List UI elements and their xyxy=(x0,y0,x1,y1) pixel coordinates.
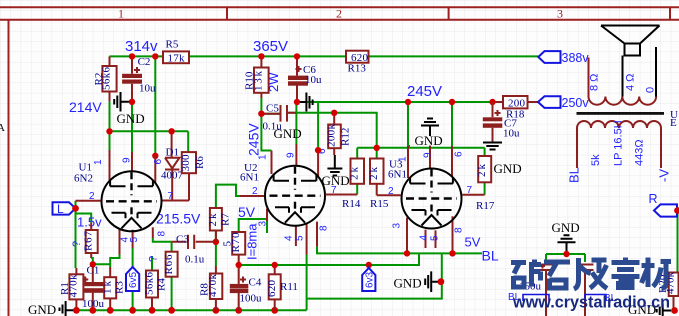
svg-text:6: 6 xyxy=(454,151,465,157)
wire pin8 U1 to C3 node xyxy=(153,238,172,242)
diode D1 4007 xyxy=(161,134,184,201)
svg-text:1: 1 xyxy=(258,154,269,160)
node dot plate U1 xyxy=(106,128,112,134)
resistor R5 17k xyxy=(163,39,189,65)
border row letter A xyxy=(0,122,5,134)
svg-text:8: 8 xyxy=(319,225,330,231)
svg-text:365V: 365V xyxy=(253,38,288,55)
svg-text:0: 0 xyxy=(645,87,657,93)
wire U3 pin6 drop xyxy=(451,102,453,146)
resistor R13 620 xyxy=(346,51,369,75)
svg-text:1: 1 xyxy=(118,7,124,21)
resistor R67 (grid) xyxy=(71,223,98,258)
svg-text:R3: R3 xyxy=(114,281,126,294)
svg-text:www.crystalradio.cn: www.crystalradio.cn xyxy=(512,293,670,312)
pin label 9 U2 xyxy=(286,152,297,158)
svg-text:1.5v: 1.5v xyxy=(77,215,102,230)
node dot D1 top xyxy=(168,128,174,134)
pin3 stub U2 xyxy=(266,209,268,222)
svg-text:R10: R10 xyxy=(244,71,256,90)
pin label 5 U3 xyxy=(430,235,441,241)
resistor R8 470k xyxy=(199,266,223,310)
svg-text:2k: 2k xyxy=(476,164,488,178)
pin label 3 U3 xyxy=(392,223,403,229)
svg-text:8: 8 xyxy=(157,231,168,237)
junction dots 245V line xyxy=(405,99,496,105)
svg-text:L: L xyxy=(57,202,64,216)
wire output port R vertical xyxy=(677,211,679,273)
capacitor C6 10u xyxy=(288,56,322,99)
svg-text:GND: GND xyxy=(415,133,443,148)
svg-text:GND: GND xyxy=(394,276,422,291)
svg-text:245V: 245V xyxy=(407,83,442,100)
net label 5V at BL xyxy=(465,235,481,250)
wire U2 pin6 up to 245V line xyxy=(317,102,319,150)
wire C5 line y=113 xyxy=(261,113,376,148)
pin label 6 U2 xyxy=(317,148,328,154)
winding label -V xyxy=(657,169,672,182)
svg-text:2k: 2k xyxy=(349,167,361,181)
ground at right of U3 (gnd drop) xyxy=(552,220,580,254)
svg-text:R: R xyxy=(649,192,658,206)
pin label 7 U3 xyxy=(467,185,473,196)
pin label 8 U1 xyxy=(157,231,168,237)
svg-text:R13: R13 xyxy=(348,63,367,75)
wire R7 top to U2 grid xyxy=(216,185,240,208)
designator U3 xyxy=(389,159,403,171)
wire pin4 U1 jog to R3/C1 node xyxy=(110,255,119,268)
svg-text:R11: R11 xyxy=(280,281,298,293)
svg-text:2k: 2k xyxy=(207,213,219,227)
svg-text:6v5: 6v5 xyxy=(128,271,139,288)
sheet border second line xyxy=(0,19,679,21)
svg-text:R7: R7 xyxy=(220,213,232,226)
speaker xyxy=(601,26,660,97)
winding label LP 16.5H xyxy=(613,120,625,166)
svg-text:314v: 314v xyxy=(125,38,158,55)
svg-text:1: 1 xyxy=(93,159,104,165)
svg-text:C4: C4 xyxy=(249,277,262,289)
wire C6/GND line 245V y=102 xyxy=(297,101,496,103)
wire C3 right to R7/R8 node xyxy=(215,208,217,267)
pin label 2 U3 xyxy=(388,186,394,197)
wire R10 bottom to U2 pin1 xyxy=(261,98,271,151)
svg-text:5V: 5V xyxy=(465,235,481,250)
svg-text:9: 9 xyxy=(122,157,133,163)
wire R17 riser xyxy=(484,148,486,195)
svg-text:0.1u: 0.1u xyxy=(185,254,205,266)
winding label 443 ohm xyxy=(634,139,646,166)
junction dots 365V line xyxy=(258,53,300,59)
svg-text:R17: R17 xyxy=(476,200,495,212)
output transformer primary 5k xyxy=(577,121,661,168)
port R xyxy=(654,204,677,216)
node dot gnd U3 bottom xyxy=(438,278,445,285)
node dot gnd drop xyxy=(563,251,569,257)
winding label 5k xyxy=(590,154,602,166)
svg-text:4 Ω: 4 Ω xyxy=(625,74,637,91)
svg-text:10u: 10u xyxy=(503,128,520,140)
port 6v5 heater xyxy=(126,267,139,291)
pin label 7 U1 xyxy=(168,191,174,202)
tap label 8 ohm xyxy=(589,74,601,91)
pin label 5 U1 xyxy=(129,237,140,243)
svg-text:R14: R14 xyxy=(342,198,361,210)
resistor R12 200k xyxy=(326,113,352,155)
wire C1 node to R3 xyxy=(93,263,110,265)
pin label 8 U3 xyxy=(454,227,465,233)
svg-text:250v: 250v xyxy=(562,96,590,110)
capacitor C2 10u xyxy=(122,56,156,104)
pin7 U2 to R14 wire xyxy=(325,194,357,196)
resistor R2 56k6 xyxy=(93,56,117,101)
net label 215.5V xyxy=(156,211,201,227)
svg-text:5: 5 xyxy=(430,235,441,241)
pin label 9 U1 xyxy=(122,157,133,163)
svg-text:9: 9 xyxy=(423,152,434,158)
net label BL xyxy=(482,248,499,264)
node dot pin6 U1 xyxy=(152,153,158,159)
svg-text:4: 4 xyxy=(419,235,430,241)
net label 1.5v xyxy=(77,215,102,230)
resistor R11 620 xyxy=(266,265,298,310)
net label 245V right xyxy=(407,83,442,100)
svg-text:D1: D1 xyxy=(166,147,179,159)
pin label 2 U2 xyxy=(252,186,258,197)
output transformer secondary (speaker side) xyxy=(589,58,657,105)
wire ground bus bottom y=310.3 xyxy=(76,309,306,311)
text U (right edge) xyxy=(670,109,678,121)
wire C3 node down through R66 to bus xyxy=(171,242,173,310)
wire BL cathode line y=253.4 xyxy=(317,247,482,254)
designator U1 xyxy=(79,162,92,174)
wire R14 drop xyxy=(356,148,358,159)
pin label 9 U3 xyxy=(423,152,434,158)
border zone number 2 xyxy=(336,7,342,21)
resistor R70 cathode xyxy=(222,232,246,265)
watermark url xyxy=(512,293,670,312)
bus junction dots xyxy=(73,307,278,314)
svg-text:6: 6 xyxy=(153,159,164,165)
node dot C6 bottom xyxy=(294,99,300,105)
pin9 stub U3 from gnd xyxy=(429,146,431,169)
wire grid branch to R67 xyxy=(76,214,92,223)
ground symbol above U3 pin9 xyxy=(415,119,443,149)
tap label 0 xyxy=(645,87,657,93)
svg-text:443Ω: 443Ω xyxy=(634,139,646,166)
pin label 7 U2 xyxy=(331,185,337,196)
wire plate feed U1 (R2 bottom to pin1) xyxy=(109,101,111,150)
sheet border top line xyxy=(0,6,679,8)
svg-text:R6: R6 xyxy=(194,156,206,169)
border tick x=227 xyxy=(226,7,228,20)
ground bottom left xyxy=(28,301,76,316)
pin label 1 U1 xyxy=(93,159,104,165)
svg-text:C3: C3 xyxy=(176,234,189,246)
ground symbol U2 pin6 area xyxy=(322,155,350,188)
pin label 6 U1 xyxy=(153,159,164,165)
node dot R12 top xyxy=(331,110,337,116)
wire pin6 U1 drop from B+ xyxy=(154,56,156,155)
designator 6N1 U3 xyxy=(388,169,407,181)
wire R70 top to U2 pin3 xyxy=(239,219,267,233)
pin7 stub U1 xyxy=(161,200,189,202)
winding label BL xyxy=(567,167,582,183)
svg-text:1k: 1k xyxy=(102,281,114,295)
svg-text:5: 5 xyxy=(222,241,234,247)
transformer core xyxy=(577,112,665,115)
wire C2/GND down to pin9 U1 xyxy=(131,104,133,152)
svg-text:R2: R2 xyxy=(93,73,105,86)
port 388v xyxy=(538,51,589,65)
resistor R15 2k xyxy=(368,159,389,211)
node dot C1 top xyxy=(90,261,96,267)
svg-text:A: A xyxy=(0,122,5,134)
wire pin5 U1 to 6v5 port xyxy=(132,248,134,267)
svg-text:R66: R66 xyxy=(163,254,175,275)
svg-text:5: 5 xyxy=(129,237,140,243)
capacitor C3 0.1u xyxy=(172,234,216,266)
border tick x=448 xyxy=(448,7,450,20)
svg-text:10u: 10u xyxy=(305,74,322,86)
svg-text:2: 2 xyxy=(252,186,258,197)
svg-text:E: E xyxy=(670,117,677,129)
wire U3 pin1 drop xyxy=(408,102,410,146)
node dot R15 top xyxy=(374,145,380,151)
svg-text:200k: 200k xyxy=(326,124,338,148)
resistor R1 470k xyxy=(59,268,83,310)
svg-text:2: 2 xyxy=(89,191,95,202)
resistor R3 1k xyxy=(102,267,126,310)
svg-text:620: 620 xyxy=(266,280,278,298)
resistor R6 300 xyxy=(180,152,206,200)
svg-text:1: 1 xyxy=(398,156,409,162)
svg-text:R67: R67 xyxy=(83,231,95,252)
svg-text:3: 3 xyxy=(557,7,563,21)
net label 5V at U2 xyxy=(238,204,256,220)
svg-text:6v3: 6v3 xyxy=(364,271,375,288)
svg-text:300: 300 xyxy=(180,154,192,172)
svg-text:GND: GND xyxy=(494,161,522,176)
wire U2 pin9 up to gnd node xyxy=(295,102,297,144)
wire R14/R15 node line y=147.8 xyxy=(357,147,484,149)
svg-text:I=8ma: I=8ma xyxy=(245,223,260,260)
border tick x=670 xyxy=(669,7,671,20)
svg-text:R12: R12 xyxy=(340,128,352,146)
resistor R4 56k6 xyxy=(143,256,167,310)
ground symbol at C6 (mirrored sideways) xyxy=(297,93,313,112)
svg-text:6N1: 6N1 xyxy=(388,169,407,181)
svg-text:6N1: 6N1 xyxy=(240,172,259,184)
node dots BL line xyxy=(404,250,456,256)
svg-text:7: 7 xyxy=(168,191,174,202)
svg-text:R15: R15 xyxy=(370,198,389,210)
designator U2 xyxy=(244,162,257,174)
svg-text:R1: R1 xyxy=(59,282,71,295)
capacitor C4 100u xyxy=(230,265,262,310)
node dot C3 right xyxy=(213,239,219,245)
node dot C2 gnd xyxy=(129,99,135,105)
svg-text:5k: 5k xyxy=(590,154,602,166)
svg-text:9: 9 xyxy=(286,152,297,158)
junction dots B+ line xyxy=(129,53,159,59)
GND text stage1 xyxy=(117,111,145,126)
svg-text:-V: -V xyxy=(657,169,672,182)
wire R4 riser xyxy=(151,256,153,270)
svg-text:?: ? xyxy=(71,241,83,247)
designator 6N2 xyxy=(74,173,93,185)
svg-text:R8: R8 xyxy=(199,283,211,296)
wire 6v5 port to ground bus xyxy=(132,291,134,310)
svg-text:R5: R5 xyxy=(166,39,179,51)
net label 365V xyxy=(253,38,288,55)
border zone number 3 xyxy=(557,7,563,21)
svg-text:BL: BL xyxy=(567,167,582,183)
svg-text:17k: 17k xyxy=(168,53,186,65)
svg-text:GND: GND xyxy=(552,220,580,235)
ground sideways at U3 bottom xyxy=(394,271,441,292)
svg-text:GND: GND xyxy=(274,126,302,141)
svg-text:5: 5 xyxy=(295,235,306,241)
svg-text:8: 8 xyxy=(454,227,465,233)
wire L port down to R1 xyxy=(75,208,77,268)
svg-text:GND: GND xyxy=(28,302,56,316)
current annotation I=8ma xyxy=(245,223,260,260)
port 6v3 heater xyxy=(362,265,375,291)
ground symbol below C7 xyxy=(483,143,522,177)
svg-text:5V: 5V xyxy=(238,204,256,220)
port 250v xyxy=(538,96,589,110)
svg-text:3: 3 xyxy=(392,223,403,229)
svg-text:2W: 2W xyxy=(266,72,281,92)
node dot port L xyxy=(72,205,79,212)
svg-text:?: ? xyxy=(148,256,160,262)
pin label 8 U2 xyxy=(319,225,330,231)
border left vertical xyxy=(8,20,10,316)
text E (right edge) xyxy=(670,117,677,129)
designator 6N1 U2 xyxy=(240,172,259,184)
net label 245V vertical xyxy=(246,123,262,156)
svg-text:56k6: 56k6 xyxy=(143,272,155,296)
net label 214V xyxy=(69,99,102,115)
resistor R7 2k xyxy=(207,208,231,242)
svg-text:R4: R4 xyxy=(156,278,168,291)
svg-text:2k: 2k xyxy=(368,167,380,181)
pin label 5 U2 xyxy=(295,235,306,241)
resistor R10 13k 2W xyxy=(244,56,282,98)
pin label 4 U3 xyxy=(419,235,430,241)
wire L port to grid U1 xyxy=(75,201,77,209)
svg-text:214V: 214V xyxy=(69,99,102,115)
svg-text:GND: GND xyxy=(117,111,145,126)
pin label 4 U1 xyxy=(120,237,131,243)
resistor R14 2k xyxy=(342,159,364,211)
net label 314v xyxy=(125,38,158,55)
wire R67 to C1 node xyxy=(91,258,93,264)
pin label 6 U3 xyxy=(454,151,465,157)
node dot R10/C5 xyxy=(258,111,264,117)
svg-text:C5: C5 xyxy=(266,103,279,115)
border zone number 1 xyxy=(118,7,124,21)
watermark chinese characters (drawn strokes) xyxy=(511,258,671,290)
tap label 4 ohm xyxy=(625,74,637,91)
ground bottom right xyxy=(628,302,678,316)
pin label 1 U2 xyxy=(258,154,269,160)
blue bracket ports under watermark xyxy=(508,292,617,304)
svg-text:6N2: 6N2 xyxy=(74,173,93,185)
pin label 2 U1 xyxy=(89,191,95,202)
wire cathode node line y=265 xyxy=(239,253,419,265)
node dot port R xyxy=(674,207,679,214)
resistor R19 470k right edge xyxy=(657,272,679,311)
wire R14 bottom to U2 pin7 xyxy=(356,184,358,195)
GND text at C5 xyxy=(274,126,302,141)
pin label 3 U2 xyxy=(258,221,269,227)
wire R15 drop xyxy=(376,148,378,159)
svg-text:100u: 100u xyxy=(240,293,263,305)
svg-text:215.5V: 215.5V xyxy=(156,211,201,227)
port R label xyxy=(649,192,658,206)
node dot U2 pin6 xyxy=(315,147,321,153)
svg-text:BL: BL xyxy=(482,248,499,264)
wire B+ bus 314v/365V y=56.4 xyxy=(110,55,539,57)
pin label 4 U2 xyxy=(284,235,295,241)
node dots cathode line xyxy=(236,262,372,268)
svg-text:2: 2 xyxy=(336,7,342,21)
tube U2 6N1 xyxy=(240,144,325,255)
svg-text:388v: 388v xyxy=(562,51,590,65)
svg-text:8 Ω: 8 Ω xyxy=(589,74,601,91)
wire bus step up right half xyxy=(307,253,442,310)
wire GND drop right of tube U3 xyxy=(546,254,585,262)
svg-text:LP 16.5H: LP 16.5H xyxy=(613,120,625,166)
tube U3 6N1 xyxy=(401,146,485,253)
resistor R18 200 xyxy=(496,96,538,121)
ground symbol at C2 xyxy=(114,92,132,112)
capacitor C5 0.1u xyxy=(261,103,296,133)
capacitor C7 10u xyxy=(483,102,520,142)
svg-text:4: 4 xyxy=(284,235,295,241)
svg-text:7: 7 xyxy=(467,185,473,196)
wire node line y=131.3 U1 top xyxy=(110,130,189,132)
input port L xyxy=(53,202,76,216)
resistor R17 2k xyxy=(476,156,495,212)
svg-text:2: 2 xyxy=(388,186,394,197)
pin label 1 U3 xyxy=(398,156,409,162)
svg-text:C2: C2 xyxy=(138,56,151,68)
capacitor C1 100u xyxy=(82,264,105,310)
pin2 U3 wire from R15 xyxy=(377,184,401,195)
tube U1 6N2 xyxy=(76,150,162,255)
hidden caps under watermark xyxy=(519,264,594,316)
svg-text:245V: 245V xyxy=(246,123,262,156)
svg-text:10u: 10u xyxy=(139,83,156,95)
wire R6 riser xyxy=(187,131,189,152)
resistor R66 (cathode chain) xyxy=(163,252,178,277)
